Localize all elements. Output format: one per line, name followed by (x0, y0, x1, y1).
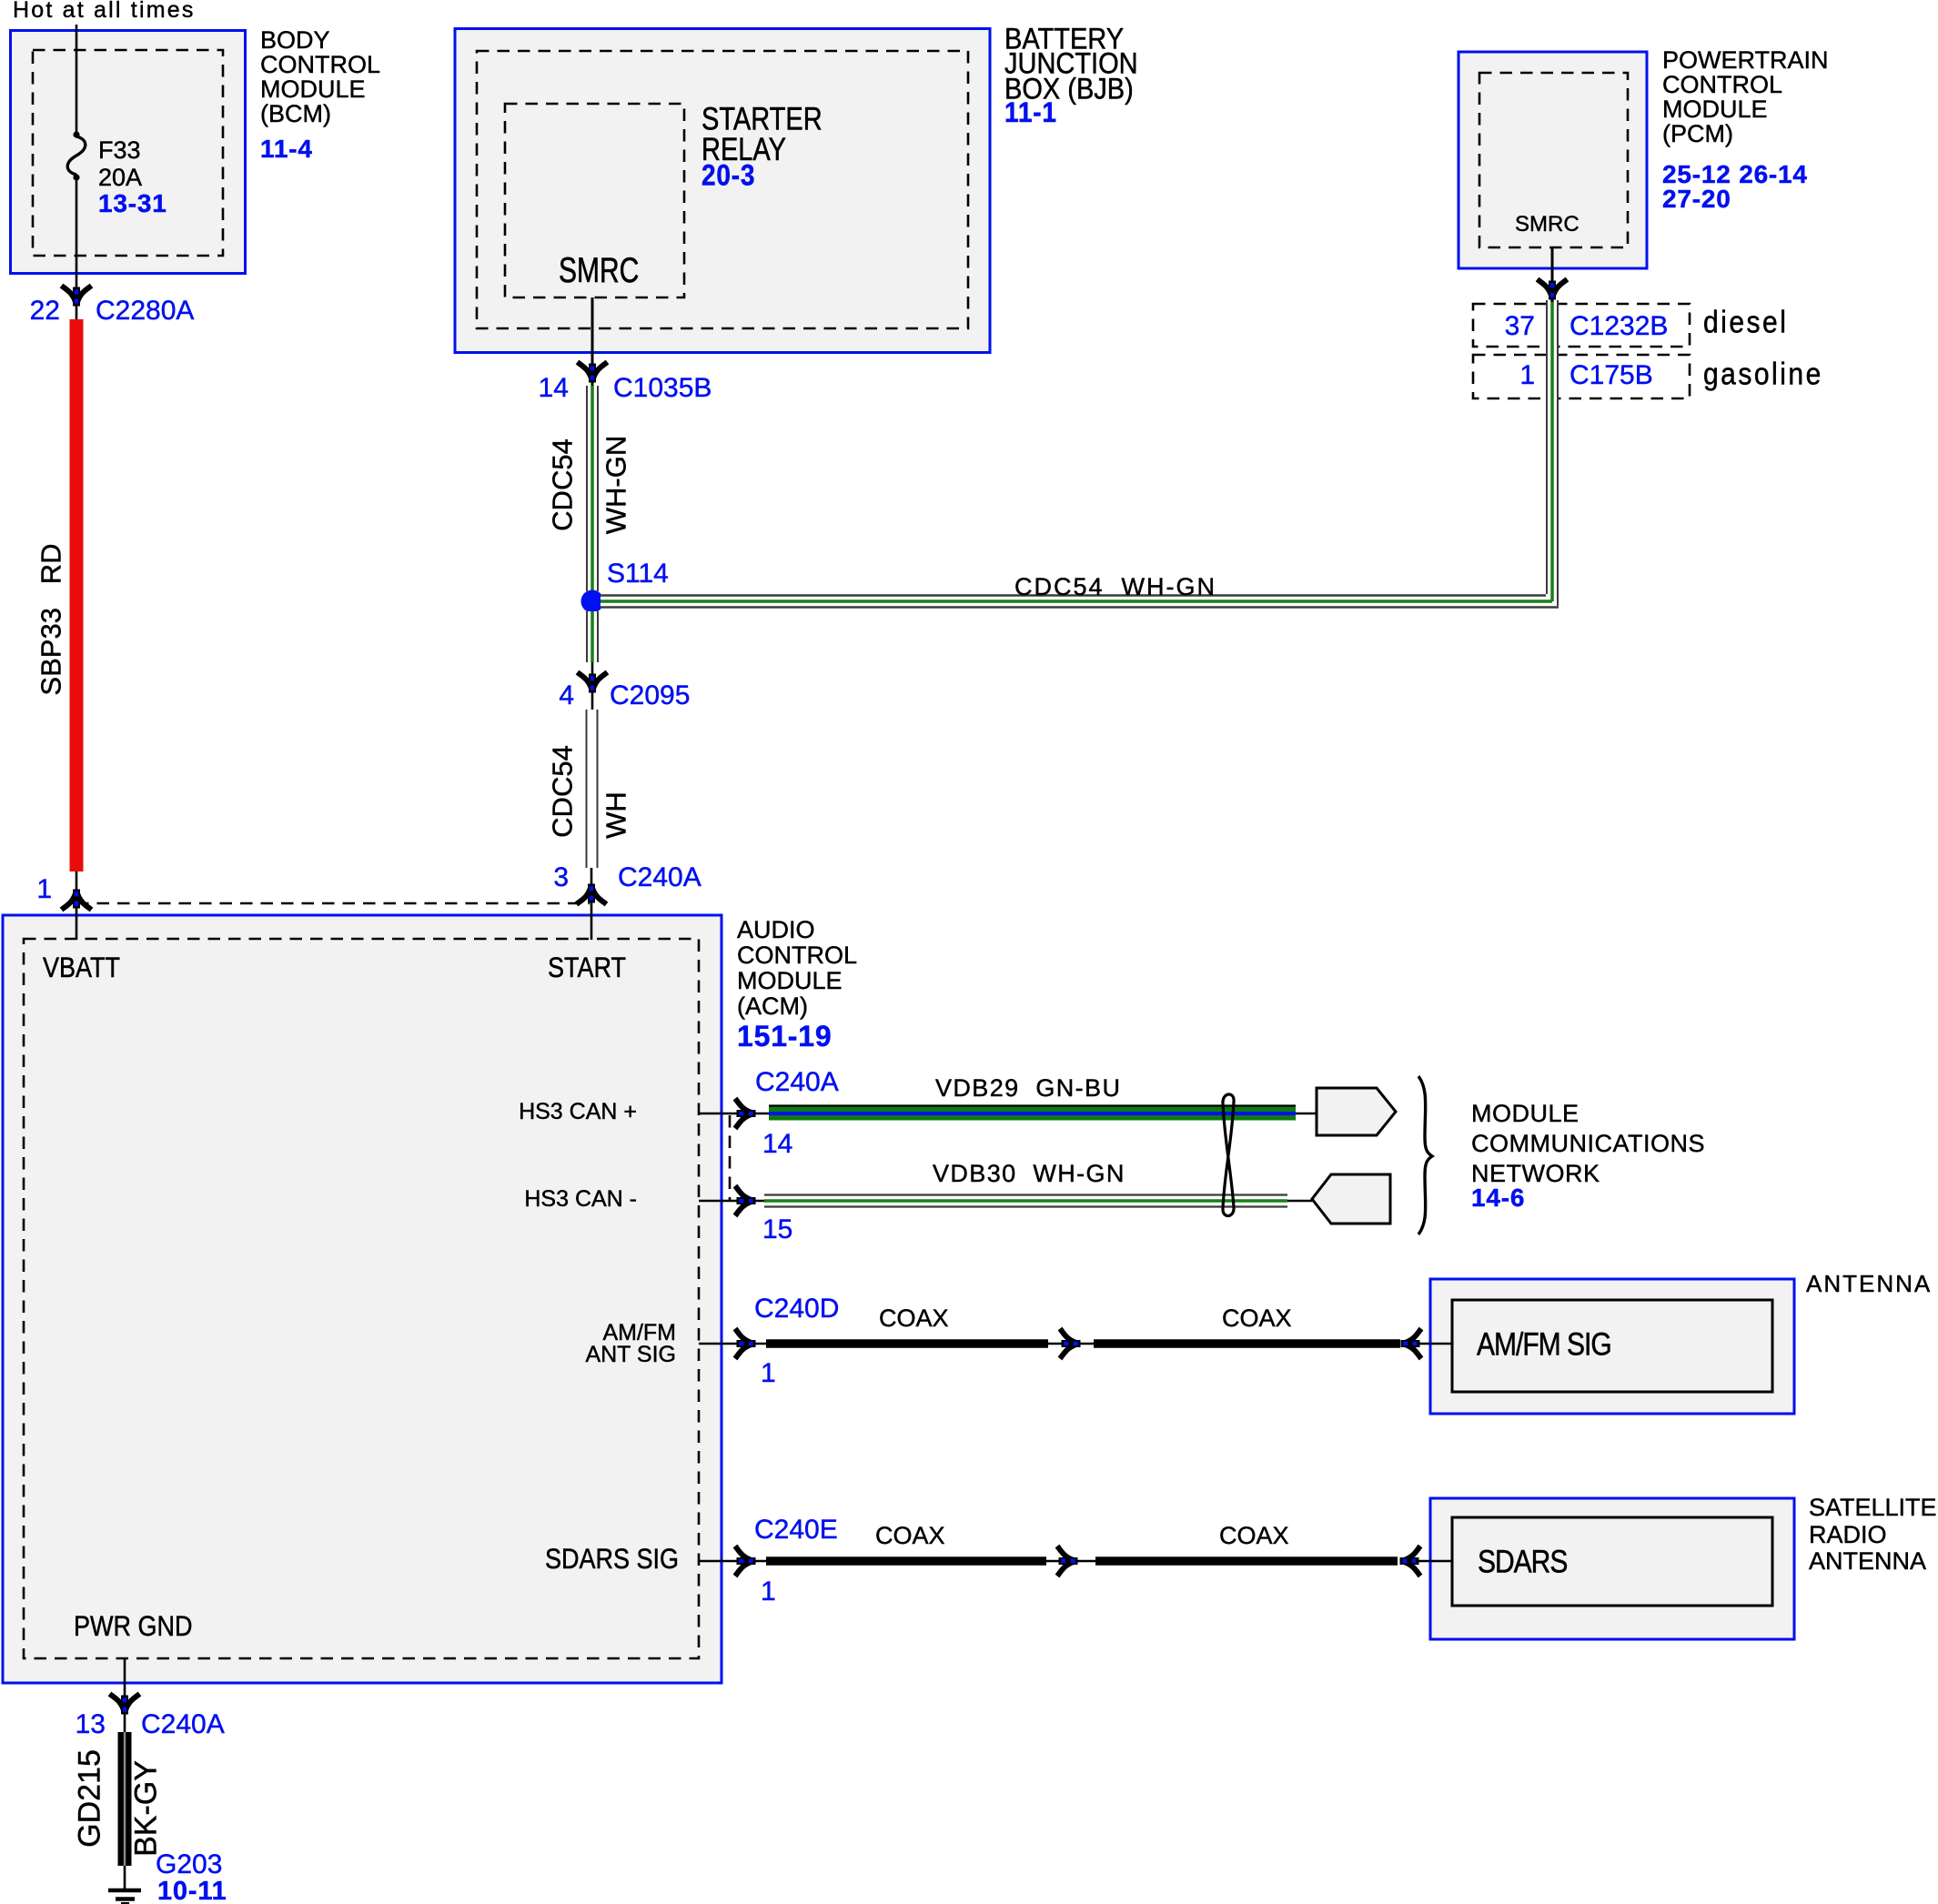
wire label VDB29 GN-BU (935, 1076, 1121, 1101)
HS3 CAN - pin label (491, 1189, 637, 1211)
connector label 1 (VBATT) (23, 876, 52, 903)
wire CDC54 WH (vertical lower) (586, 710, 599, 868)
gasoline connector dashed box C175B (1473, 355, 1690, 398)
connector label 13 C240A (71, 1711, 106, 1738)
wire label CDC54 (upper) (549, 438, 577, 531)
connector label 3 C240A (532, 864, 569, 892)
fuse F33 (73, 131, 79, 137)
HS3 CAN + pin label (491, 1102, 637, 1123)
wire label SBP33 RD (37, 543, 66, 695)
COAX wire segment 1 (AM/FM) (766, 1339, 1048, 1348)
splice S114 (581, 590, 604, 613)
wire: red to ACM VBATT (76, 871, 78, 940)
wire GD215 BK-GY (118, 1732, 132, 1866)
ACM inner dashed box (24, 939, 699, 1658)
connector C240A pin3 arrow (577, 884, 607, 905)
wire label CDC54 (lower) (549, 745, 577, 838)
wire label VDB30 WH-GN (933, 1162, 1125, 1186)
wire CDC54 WH-GN (horizontal run to PCM) (601, 594, 1559, 609)
ACM pin15 HS3 CAN - lead (699, 1200, 765, 1203)
antenna-side connector arrow (1400, 1546, 1421, 1577)
connector label 37 C1232B diesel (1499, 313, 1535, 340)
PCM inner dashed box (1479, 73, 1628, 247)
connector C2280A pin22 arrow (62, 286, 92, 307)
wire link to pentagon (1287, 1200, 1313, 1203)
wire label GD215 (76, 1749, 105, 1848)
wire SBP33 RD (red) (70, 319, 84, 871)
wire: PCM SMRC down to connector (1551, 247, 1554, 302)
connector label pin15 (762, 1216, 792, 1244)
ANTENNA box (1430, 1279, 1794, 1414)
lead into SDARS box (1416, 1560, 1453, 1563)
connector C240D pin1 arrow (735, 1329, 756, 1359)
hot at all times label (13, 0, 196, 23)
wire CDC54 WH-GN (vertical upper) (586, 386, 599, 592)
BJB label (1004, 27, 1138, 102)
SDARS row labels (533, 1545, 679, 1574)
AM/FM row labels (530, 1323, 676, 1365)
connector label 1 C175B gasoline (1499, 362, 1535, 389)
splice label S114 (607, 560, 669, 588)
brace (module communications network) (1418, 1076, 1432, 1234)
module comms network label (1471, 1099, 1705, 1189)
connector label 14 C1035B (532, 375, 569, 402)
ACM PWR GND lead (124, 1658, 126, 1732)
BJB outer dashed box (477, 51, 968, 328)
wire to ACM START (590, 868, 593, 940)
antenna-side connector arrow (1401, 1329, 1422, 1359)
ACM pin labels (43, 953, 120, 982)
fuse F33 label (98, 136, 142, 191)
connector C2095 pin4 arrow (578, 672, 608, 693)
ACM pin C240E SDARS SIG lead (699, 1560, 767, 1563)
lead into AM/FM SIG box (1417, 1343, 1453, 1345)
COAX wire segment 2 (AM/FM) (1094, 1339, 1400, 1348)
inline coax connector arrow (1057, 1546, 1078, 1577)
wire link to pentagon (1296, 1113, 1317, 1115)
PWR GND pin label (74, 1612, 193, 1641)
wire below S114 CDC54 WH-GN short (586, 611, 599, 662)
ACM pin14 HS3 CAN + lead (699, 1113, 770, 1115)
connector label C240A pin14 (755, 1069, 839, 1096)
wire to ground (124, 1866, 126, 1890)
wire label BK-GY (133, 1760, 161, 1857)
connector C240A pin1 arrow (62, 890, 92, 911)
wire VDB30 WH-GN (764, 1194, 1287, 1208)
ACM label (737, 917, 857, 1019)
SMRC label (PCM) (1515, 212, 1580, 237)
ground G203 (108, 1890, 141, 1904)
starter relay SMRC dashed box (505, 104, 684, 297)
SATELLITE RADIO ANTENNA box (1430, 1498, 1794, 1639)
wire label WH (lower) (602, 791, 631, 839)
wire CDC54 WH-GN (vertical from PCM) (1546, 300, 1559, 606)
inline coax connector arrow (1060, 1329, 1081, 1359)
wire label WH-GN (upper) (602, 436, 631, 534)
ACM box (3, 915, 722, 1683)
PCM box (1459, 52, 1647, 268)
ground label G203 (156, 1851, 222, 1879)
off-page arrow (to module comms network) (1317, 1088, 1396, 1135)
BCM label (260, 28, 380, 126)
connector C240A pin13 arrow (110, 1694, 140, 1715)
wire to C2095 (591, 662, 594, 710)
twisted pair symbol (1223, 1094, 1234, 1216)
connector label 22 C2280A (25, 297, 60, 325)
dashed connector line C240A (VBATT to START) (76, 902, 590, 905)
connector C240A pin15 arrow (735, 1186, 756, 1216)
wire: fuse to BCM bottom (76, 178, 78, 319)
connector label 4 C2095 (538, 682, 574, 710)
BCM inner dashed box (33, 50, 223, 256)
connector C240E pin1 arrow (735, 1546, 756, 1577)
connector C1232B pin37 arrow (1538, 279, 1568, 300)
BJB box (455, 29, 990, 353)
off-page arrow (from module comms network) (1312, 1174, 1390, 1224)
starter relay label (702, 106, 823, 166)
SMRC label (BJB) (559, 255, 639, 287)
BCM box (11, 31, 246, 274)
COAX wire segment 2 (SDARS) (1095, 1556, 1398, 1566)
PCM label (1662, 48, 1829, 146)
connector C240A pin14 arrow (735, 1099, 756, 1129)
connector C1035B pin14 arrow (578, 362, 608, 383)
ACM pin C240D AM/FM ANT SIG lead (699, 1343, 767, 1345)
wire: SMRC to BJB bottom (591, 297, 594, 386)
wire label CDC54 WH-GN (horizontal) (1014, 575, 1216, 599)
wire: hot at all times into BCM (76, 25, 78, 134)
dashed connector line C240A (pin14 to pin15) (729, 1115, 732, 1201)
COAX wire segment 1 (SDARS) (766, 1556, 1046, 1566)
diesel connector dashed box C1232B (1473, 304, 1690, 347)
wire VDB29 GN-BU (769, 1106, 1296, 1121)
